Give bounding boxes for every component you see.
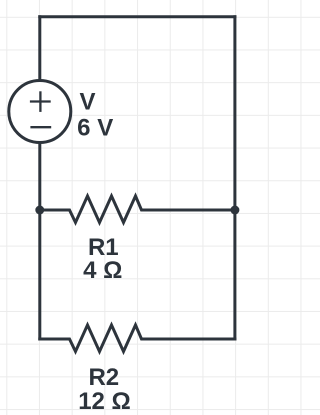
wire: top horizontal — [38, 15, 236, 18]
svg-text:6 V: 6 V — [77, 114, 113, 141]
svg-text:12 Ω: 12 Ω — [78, 388, 131, 415]
junction node right — [230, 206, 239, 215]
junction node left — [35, 206, 44, 215]
svg-text:R2: R2 — [88, 364, 119, 391]
V1 minus sign — [30, 126, 51, 128]
svg-text:V: V — [79, 89, 95, 116]
wire: left vertical top lead to V1 — [38, 15, 41, 82]
resistor R1 zigzag with leads — [40, 196, 235, 223]
V1 plus sign — [30, 91, 51, 112]
wire: right vertical — [233, 15, 236, 340]
svg-text:4 Ω: 4 Ω — [83, 257, 122, 284]
voltage source V1 circle — [9, 81, 71, 143]
resistor R2 zigzag with leads — [38, 325, 236, 352]
wire: left vertical V1 bottom to bottom-left corner — [38, 141, 41, 341]
